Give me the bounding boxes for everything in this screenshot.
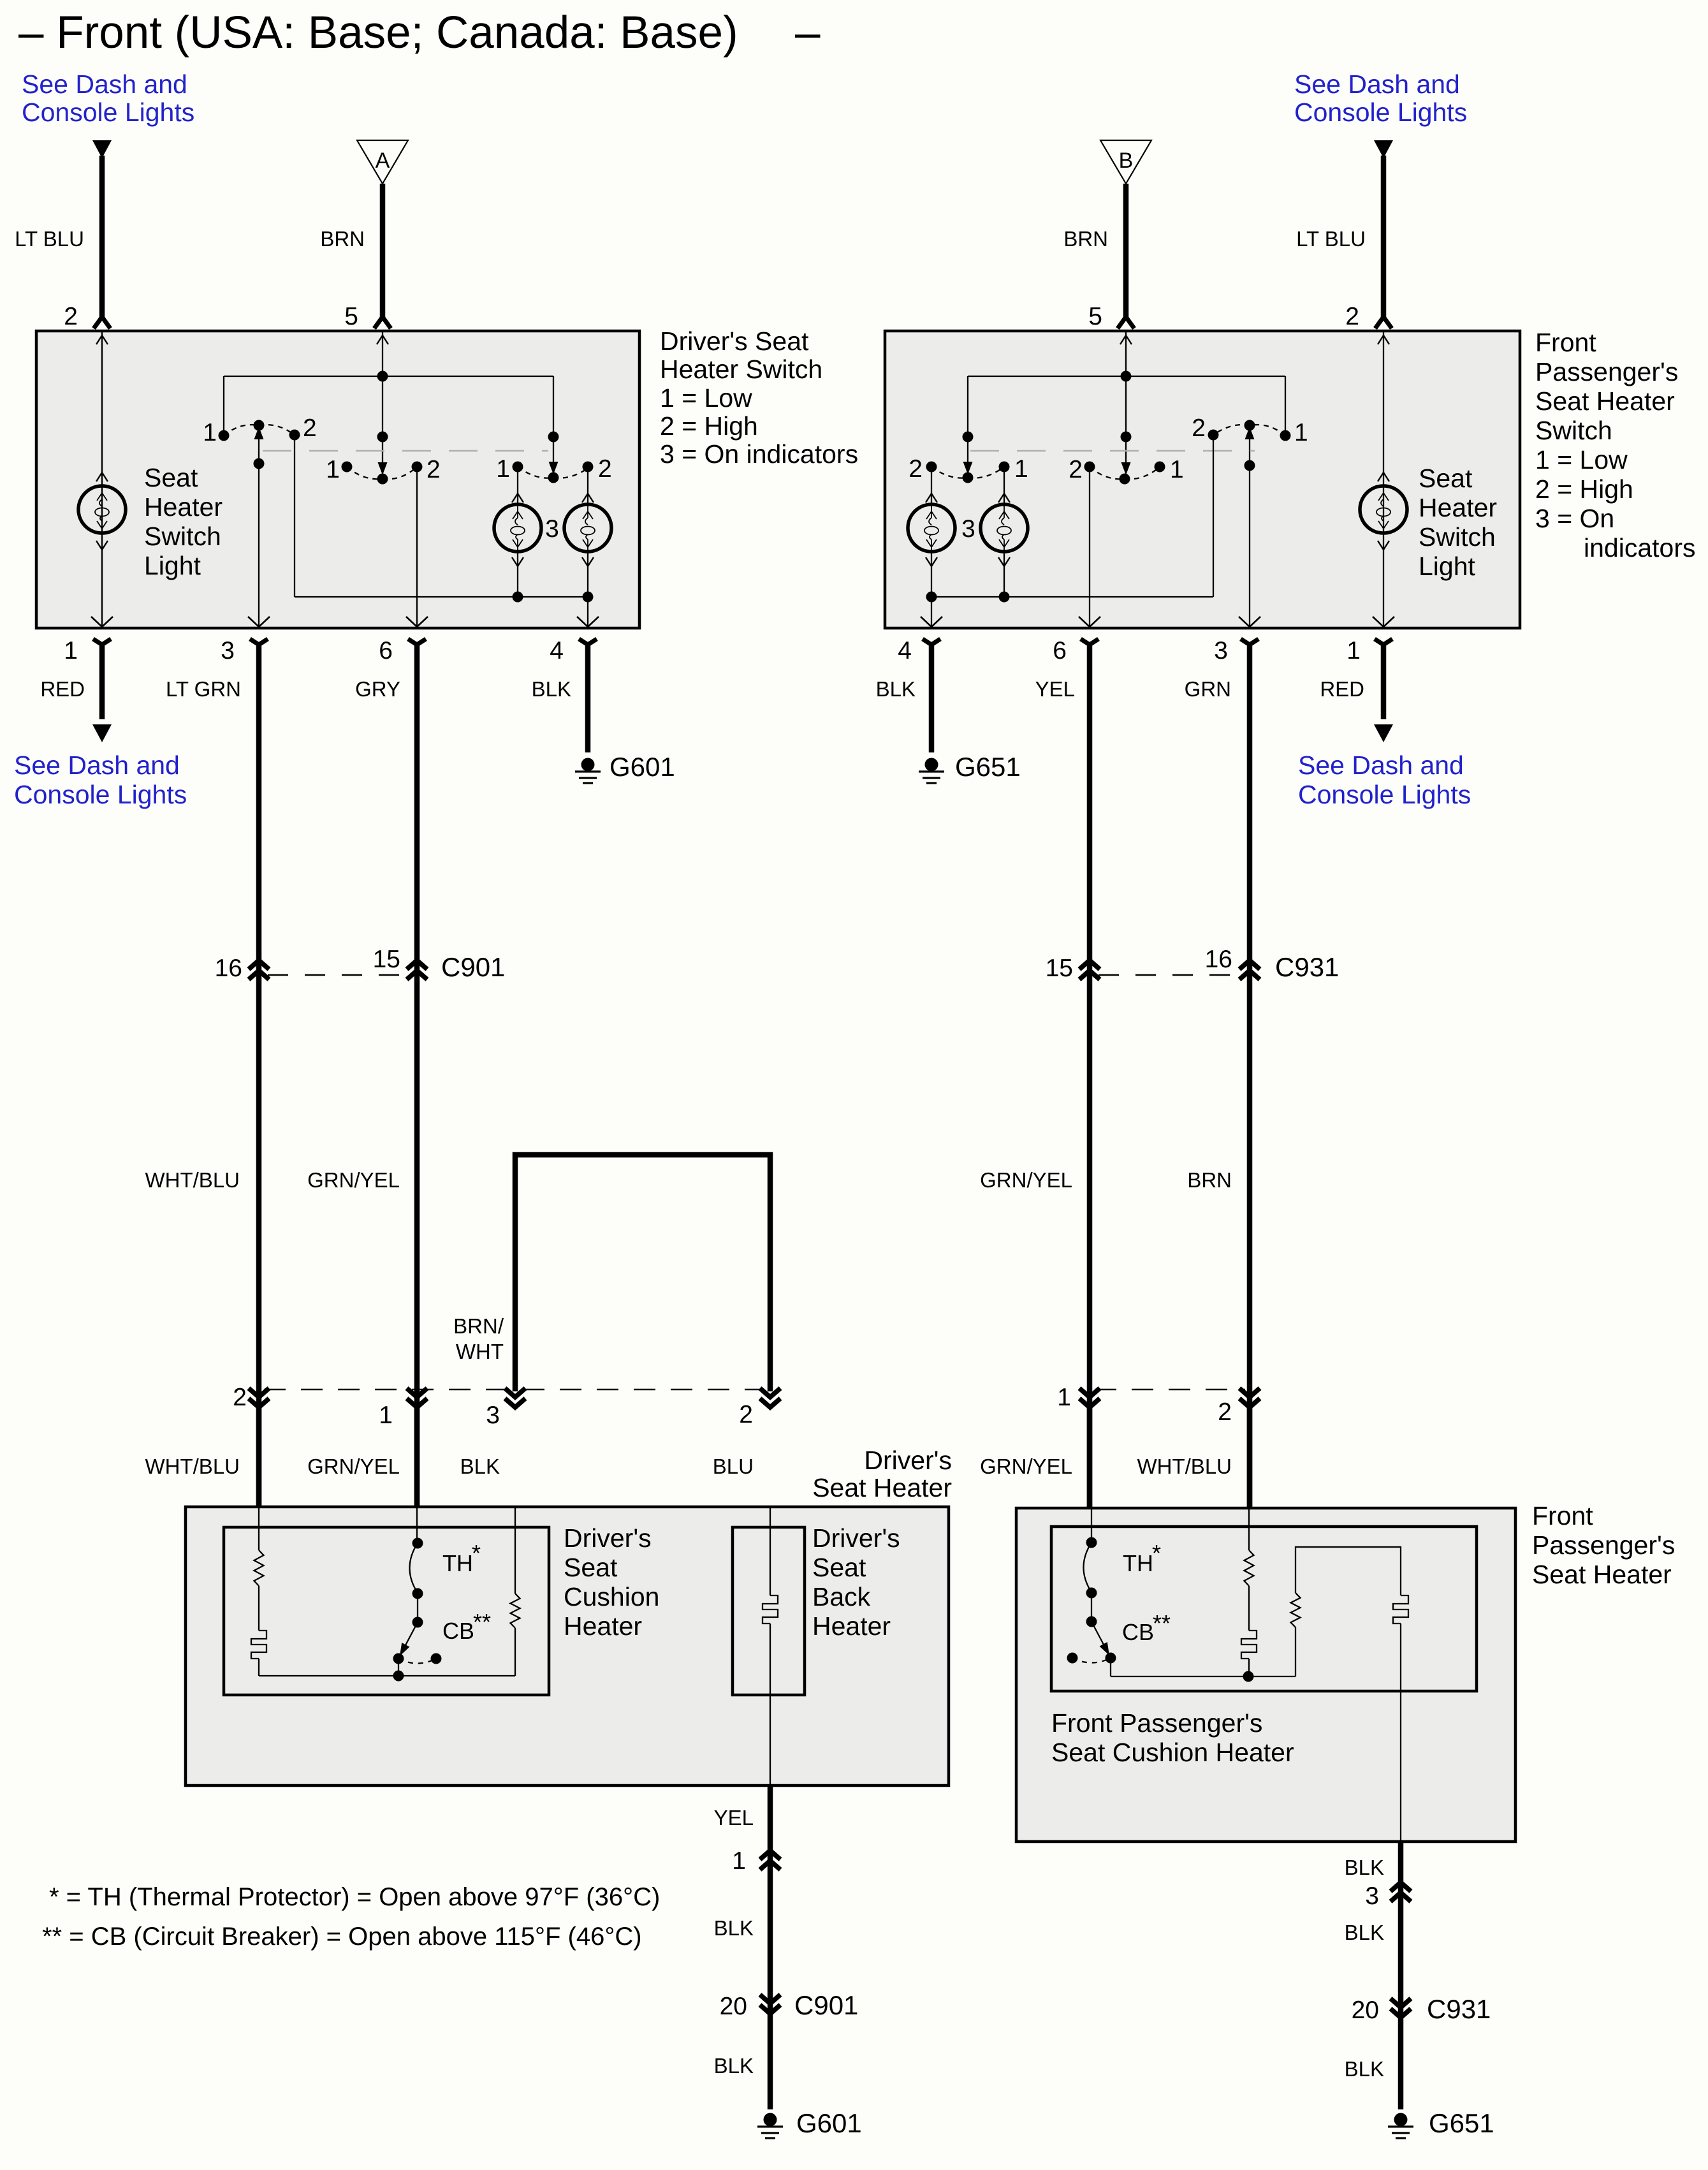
wire pin4 output (driver) <box>587 597 588 627</box>
indicator lamp 2 (passenger) <box>981 504 1028 552</box>
svg-text:3: 3 <box>486 1402 500 1429</box>
svg-text:1: 1 <box>1170 456 1184 483</box>
svg-text:Seat Cushion Heater: Seat Cushion Heater <box>1051 1738 1294 1767</box>
svg-text:2: 2 <box>1069 456 1083 483</box>
svg-text:TH: TH <box>1123 1550 1153 1576</box>
arrowhead down (below passenger switch light) <box>1378 541 1389 550</box>
contact dot wiper (driver low-high) <box>377 474 388 485</box>
svg-text:4: 4 <box>898 637 912 664</box>
svg-text:– Front (USA: Base; Canada: Ba: – Front (USA: Base; Canada: Base) <box>18 8 738 58</box>
svg-text:BLK: BLK <box>714 2054 754 2078</box>
wire stub pin1 to heater (passenger) <box>1087 1407 1093 1508</box>
junction dot bus lamp1 (driver) <box>513 592 523 603</box>
svg-text:–: – <box>795 8 821 58</box>
wire pin3 output (driver) <box>254 438 265 627</box>
svg-text:Heater: Heater <box>144 492 223 522</box>
svg-text:G651: G651 <box>1429 2108 1494 2138</box>
wire into cushion heater branch 3 (driver) <box>515 1507 516 1594</box>
svg-text:Driver's: Driver's <box>812 1523 900 1553</box>
arrowhead up (passenger pin5 wire top) <box>1120 335 1132 344</box>
indicator lamp 1 (driver) <box>494 504 541 552</box>
wire to indicator lamp 2 (passenger) <box>998 467 1010 504</box>
junction dot feed/branch (passenger) <box>1121 371 1132 382</box>
switch contact upper (driver): dashed throws <box>224 425 295 436</box>
svg-text:CB: CB <box>442 1618 474 1644</box>
svg-text:G601: G601 <box>796 2108 862 2138</box>
arrowhead down pin4 (driver box bottom) <box>577 617 599 627</box>
wire pin6 output (driver) <box>416 467 418 627</box>
circuit breaker CB switch (passenger) <box>1067 1622 1116 1676</box>
wire resistor to bus (driver cushion right) <box>515 1628 516 1676</box>
wire GRY / GRN-YEL (driver pin 6 to heater) <box>408 639 426 1507</box>
svg-text:See Dash and: See Dash and <box>1294 70 1460 99</box>
contact dot 1 (driver upper) <box>219 430 230 441</box>
wire BLK (passenger pin 4 to ground) <box>923 639 940 752</box>
arrowhead down below lamp 2 (driver) <box>582 552 594 597</box>
svg-text:G651: G651 <box>955 752 1021 782</box>
svg-text:WHT/BLU: WHT/BLU <box>145 1455 240 1478</box>
note see dash and console lights (passenger RED) <box>1298 751 1471 809</box>
svg-text:*: * <box>472 1540 481 1566</box>
wire LT GRN / WHT-BLU (driver pin 3 to heater) <box>250 639 268 1507</box>
svg-text:Console Lights: Console Lights <box>22 98 194 127</box>
label driver's seat cushion heater <box>564 1523 659 1641</box>
svg-text:LT GRN: LT GRN <box>166 677 241 701</box>
svg-text:Seat: Seat <box>564 1553 618 1582</box>
svg-text:2: 2 <box>739 1401 753 1428</box>
svg-text:B: B <box>1119 149 1134 173</box>
svg-text:Driver's: Driver's <box>864 1446 952 1475</box>
svg-text:G601: G601 <box>609 752 675 782</box>
driver heater connector pin 3 (BLK) <box>505 1388 525 1397</box>
wire into seat back heater (driver) <box>770 1507 771 1595</box>
svg-text:TH: TH <box>442 1550 473 1576</box>
junction dot bus (passenger cushion) <box>1243 1671 1254 1682</box>
svg-text:BRN: BRN <box>1187 1168 1232 1192</box>
svg-text:1: 1 <box>496 455 510 483</box>
wire element to bus (passenger cushion) <box>1248 1659 1250 1676</box>
connector C901 pin 15 <box>407 960 427 969</box>
svg-text:2: 2 <box>1345 303 1359 330</box>
svg-text:BLK: BLK <box>1345 2057 1384 2081</box>
svg-text:See Dash and: See Dash and <box>1298 751 1464 780</box>
svg-text:Console Lights: Console Lights <box>14 780 187 809</box>
wire stub pin2 to heater (driver) <box>256 1407 262 1507</box>
svg-text:BRN: BRN <box>1063 227 1108 251</box>
arrowhead down below lamp 1 (passenger) <box>926 552 937 597</box>
resistor heater element high (driver cushion) <box>511 1594 520 1628</box>
svg-text:1: 1 <box>1294 419 1308 446</box>
contact dot 2 (passenger upper) <box>1208 430 1219 441</box>
svg-text:GRN: GRN <box>1185 677 1231 701</box>
contact dot 1 (passenger indicators) <box>999 462 1010 473</box>
arrowhead down pin4 (passenger box bottom) <box>921 617 942 627</box>
arrowhead up (above passenger switch light) <box>1378 473 1389 481</box>
svg-text:1: 1 <box>1347 637 1361 664</box>
svg-text:WHT: WHT <box>456 1340 504 1363</box>
svg-text:C901: C901 <box>794 1990 858 2020</box>
ground G601 (switch) <box>575 758 601 784</box>
wire to indicator lamp 1 (passenger) <box>926 467 937 504</box>
svg-text:Switch: Switch <box>1419 522 1496 552</box>
passenger heater connector pin 1 (GRN/YEL) <box>1079 1388 1100 1397</box>
svg-text:Passenger's: Passenger's <box>1532 1530 1675 1560</box>
svg-text:Front: Front <box>1535 328 1596 357</box>
contact dot 1 (driver indicators) <box>513 462 523 473</box>
switch contact indicators (passenger): dashed throws <box>931 467 1004 478</box>
switch contact low-high (driver): dashed throws <box>347 467 417 479</box>
connector pin 3 (passenger heater return) <box>1390 1882 1411 1891</box>
svg-text:3: 3 <box>961 515 975 543</box>
arrowhead to low-high wiper (passenger) <box>1121 462 1131 475</box>
heating element symbol (driver seat back) <box>763 1595 778 1624</box>
passenger heater connector pin 2 (WHT/BLU) <box>1239 1388 1260 1397</box>
wire element to box exit (passenger) <box>1400 1624 1401 1842</box>
ground G651 (heater) <box>1388 2113 1413 2139</box>
thermal protector TH (driver) <box>410 1538 423 1628</box>
connector pin 1 (driver heater return) <box>760 1851 780 1859</box>
contact dot 1 low (driver) <box>342 462 353 473</box>
wire high resistor up and over (passenger) <box>1296 1547 1401 1595</box>
svg-text:LT BLU: LT BLU <box>1296 227 1366 251</box>
svg-text:GRN/YEL: GRN/YEL <box>980 1455 1072 1478</box>
svg-text:Console Lights: Console Lights <box>1298 780 1471 809</box>
svg-text:2: 2 <box>427 456 441 483</box>
svg-text:3 = On: 3 = On <box>1535 504 1614 533</box>
front passenger's seat heater box <box>1016 1508 1515 1842</box>
wire LT BLU (driver switch pin 2 feed) <box>94 156 110 328</box>
contact dot wiper top (driver upper) <box>254 420 265 431</box>
label driver's seat heater <box>812 1446 952 1502</box>
heating element symbol (passenger cushion mid) <box>1241 1631 1257 1659</box>
ground G601 (heater) <box>757 2113 783 2139</box>
front passenger's seat heater switch box <box>885 331 1520 628</box>
svg-text:2: 2 <box>233 1384 247 1411</box>
wire feed branch horizontal (driver) <box>224 376 553 377</box>
contact dot wiper (passenger indicators) <box>963 473 974 483</box>
svg-text:1: 1 <box>379 1402 393 1429</box>
heating element symbol (driver cushion left) <box>251 1631 266 1659</box>
connector C901 pin 16 <box>249 960 269 969</box>
driver's seat cushion heater box <box>224 1527 549 1695</box>
arrowhead up (driver pin5 wire top) <box>377 335 388 344</box>
wire RED (driver pin 1) <box>93 639 111 719</box>
svg-text:Back: Back <box>812 1582 871 1611</box>
arrow to dash lights (driver RED) <box>92 724 112 742</box>
svg-text:See Dash and: See Dash and <box>22 70 187 99</box>
wire feed branch horizontal (passenger) <box>968 376 1285 377</box>
svg-text:1: 1 <box>732 1847 746 1875</box>
svg-text:RED: RED <box>40 677 85 701</box>
driver switch description text <box>660 326 858 469</box>
svg-text:Passenger's: Passenger's <box>1535 357 1678 386</box>
wire switch light branch (driver, pin2 to pin1) <box>101 332 103 627</box>
switch contact low-high (passenger): dashed throws <box>1090 467 1160 479</box>
svg-text:indicators: indicators <box>1584 533 1695 562</box>
lamp passenger seat heater switch light <box>1360 486 1407 533</box>
svg-text:15: 15 <box>1046 955 1073 982</box>
contact dot 2 (driver upper) <box>289 430 300 441</box>
svg-text:BLK: BLK <box>460 1455 500 1478</box>
arrow to dash lights (passenger RED) <box>1374 724 1393 742</box>
connector C901 dashed link <box>268 974 408 976</box>
svg-text:2 = High: 2 = High <box>660 411 758 441</box>
heating element symbol (passenger cushion right) <box>1393 1595 1408 1624</box>
contact dot 1 (passenger upper) <box>1280 430 1291 441</box>
label front passenger's seat heater <box>1532 1501 1675 1589</box>
wire cushion heater bus (driver) <box>259 1675 515 1676</box>
resistor heater element low (passenger cushion) <box>1245 1550 1254 1586</box>
svg-text:WHT/BLU: WHT/BLU <box>145 1168 240 1192</box>
driver's seat back heater box <box>733 1527 805 1695</box>
svg-text:Seat Heater: Seat Heater <box>1535 386 1675 416</box>
svg-text:BLK: BLK <box>532 677 571 701</box>
svg-text:** = CB (Circuit Breaker) = Op: ** = CB (Circuit Breaker) = Open above 1… <box>42 1923 642 1951</box>
svg-text:YEL: YEL <box>714 1806 754 1829</box>
svg-text:Seat Heater: Seat Heater <box>1532 1560 1672 1589</box>
wire cushion heater bus (passenger) <box>1111 1676 1296 1677</box>
svg-text:3: 3 <box>1214 637 1228 664</box>
arrowhead up to upper wiper (passenger) <box>1245 427 1255 439</box>
svg-text:2: 2 <box>1192 414 1206 442</box>
arrowhead up (above driver switch light) <box>96 473 108 481</box>
passenger switch description text <box>1535 328 1695 562</box>
svg-text:GRN/YEL: GRN/YEL <box>980 1168 1072 1192</box>
svg-text:**: ** <box>1153 1610 1171 1636</box>
svg-text:Seat: Seat <box>144 463 198 492</box>
wire resistor to element (driver cushion) <box>258 1586 259 1631</box>
wire pin5 feed (driver switch) <box>382 332 383 473</box>
mechanical link dashed (passenger switch) <box>970 450 1255 452</box>
svg-text:5: 5 <box>1088 303 1102 330</box>
svg-text:C901: C901 <box>441 952 505 982</box>
wire into passenger cushion heater branch 1 <box>1091 1508 1092 1543</box>
arrowhead down pin3 (driver box bottom) <box>248 617 270 627</box>
wire BLK (driver pin 4 to ground) <box>579 639 597 752</box>
label seat heater switch light (driver) <box>144 463 223 580</box>
arrowhead down (below driver switch light) <box>96 541 108 550</box>
arrowhead down pin6 (driver box bottom) <box>406 617 428 627</box>
driver heater connector pin 1 (GRN/YEL) <box>407 1388 427 1397</box>
label TH* (driver) <box>442 1540 481 1576</box>
resistor heater element low (driver cushion) <box>254 1550 264 1586</box>
circuit breaker CB switch (driver) <box>393 1622 442 1682</box>
svg-text:2: 2 <box>909 455 923 483</box>
svg-text:Seat: Seat <box>812 1553 866 1582</box>
arrowhead down (driver light wire at box bottom) <box>91 617 113 627</box>
wire branch drop right (passenger upper contact) <box>1285 376 1286 436</box>
svg-text:LT BLU: LT BLU <box>15 227 84 251</box>
svg-text:2: 2 <box>64 303 78 330</box>
svg-text:3: 3 <box>545 515 559 543</box>
svg-text:BLK: BLK <box>1345 1856 1384 1879</box>
wire pin4 output (passenger) <box>931 597 932 627</box>
lamp driver seat heater switch light <box>78 486 126 533</box>
driver heater connector dashed link <box>264 1389 764 1391</box>
svg-text:CB: CB <box>1122 1619 1154 1645</box>
svg-text:20: 20 <box>720 1993 747 2020</box>
svg-text:Switch: Switch <box>1535 416 1612 445</box>
wire lamp return bus (passenger) <box>931 596 1213 597</box>
svg-text:16: 16 <box>1205 946 1232 973</box>
arrowhead down below lamp 1 (driver) <box>512 552 523 597</box>
wire stub pin2 to heater (passenger) <box>1247 1407 1253 1508</box>
junction dot on feed (passenger) <box>1121 432 1132 443</box>
power arrow from dash lights (left LT BLU) <box>92 140 112 158</box>
svg-text:Light: Light <box>1419 552 1476 581</box>
svg-text:6: 6 <box>1053 637 1067 664</box>
svg-text:BLU: BLU <box>713 1455 754 1478</box>
wire seat back element to box exit (driver) <box>770 1624 771 1785</box>
power arrow from dash lights (right LT BLU) <box>1374 140 1393 158</box>
svg-text:Seat: Seat <box>1419 464 1473 493</box>
connector C931 pin 15 <box>1079 960 1100 969</box>
svg-text:2: 2 <box>1218 1398 1232 1426</box>
svg-text:RED: RED <box>1320 677 1364 701</box>
contact dot 1 low (passenger) <box>1155 462 1165 473</box>
wire LT BLU (passenger switch pin 2 feed) <box>1375 156 1392 328</box>
svg-text:6: 6 <box>379 637 393 664</box>
svg-text:C931: C931 <box>1275 952 1339 982</box>
driver heater connector pin 2 (WHT/BLU) <box>249 1388 269 1397</box>
wire GRN / BRN (passenger pin 3 to heater) <box>1241 639 1259 1508</box>
wire pin6 output (passenger) <box>1089 467 1090 627</box>
thermal protector TH (passenger) <box>1084 1537 1097 1627</box>
wire BRN from A (driver switch pin 5 feed) <box>374 184 391 328</box>
svg-text:3: 3 <box>1365 1882 1379 1910</box>
wire YEL/BLK (driver heater to ground) <box>768 1785 773 2109</box>
svg-text:1: 1 <box>1014 455 1028 483</box>
ground G651 (switch) <box>919 758 944 784</box>
wire BRN from B (passenger switch pin 5 feed) <box>1118 184 1134 328</box>
svg-text:GRY: GRY <box>355 677 400 701</box>
driver's seat heater switch box <box>36 331 639 628</box>
svg-text:3 = On indicators: 3 = On indicators <box>660 439 858 469</box>
connector C931 pin 16 <box>1239 960 1260 969</box>
svg-text:1: 1 <box>64 637 78 664</box>
wire to indicator lamp 2 (driver) <box>582 467 594 504</box>
svg-text:YEL: YEL <box>1035 677 1075 701</box>
svg-text:1: 1 <box>1057 1384 1071 1411</box>
indicator lamp 1 (passenger) <box>908 504 955 552</box>
svg-text:1 = Low: 1 = Low <box>1535 445 1628 474</box>
arrowhead up to upper wiper (driver) <box>254 427 264 439</box>
svg-text:1: 1 <box>203 419 217 446</box>
svg-text:15: 15 <box>373 946 400 973</box>
resistor heater element high (passenger cushion) <box>1291 1593 1301 1627</box>
svg-text:1 = Low: 1 = Low <box>660 383 752 413</box>
svg-text:A: A <box>376 149 390 173</box>
wire into cushion heater branch 1 (driver) <box>258 1507 259 1550</box>
svg-text:5: 5 <box>344 303 358 330</box>
svg-text:Light: Light <box>144 551 201 580</box>
svg-text:WHT/BLU: WHT/BLU <box>1137 1455 1232 1478</box>
svg-text:20: 20 <box>1352 1997 1379 2024</box>
svg-text:BLK: BLK <box>714 1916 754 1940</box>
wire RED (passenger pin 1) <box>1375 639 1392 719</box>
front passenger's seat cushion heater box <box>1051 1527 1477 1691</box>
wire switch light branch (passenger) <box>1383 332 1384 627</box>
wire from contact 2 to bus (driver) <box>294 435 295 597</box>
svg-text:3: 3 <box>221 637 235 664</box>
wire lamp return bus (driver) <box>295 596 588 597</box>
svg-text:Console Lights: Console Lights <box>1294 98 1467 127</box>
svg-text:*: * <box>1152 1540 1161 1566</box>
switch contact upper (passenger): dashed throws <box>1213 425 1285 436</box>
note see dash and console lights (top right) <box>1294 70 1467 127</box>
wire BRN-WHT / BLU jumper loop (driver heater) <box>515 1155 770 1391</box>
svg-text:See Dash and: See Dash and <box>14 751 180 780</box>
svg-text:* = TH (Thermal Protector) = O: * = TH (Thermal Protector) = Open above … <box>49 1883 660 1911</box>
svg-text:Seat Heater: Seat Heater <box>812 1473 952 1502</box>
svg-text:BRN/: BRN/ <box>453 1314 504 1338</box>
wire pin5 feed (passenger switch) <box>1125 332 1127 473</box>
mechanical link dashed (driver switch) <box>263 450 548 452</box>
wire pin3 output (passenger) <box>1245 438 1255 627</box>
junction dot bus lamp1 (passenger) <box>926 592 937 603</box>
arrowhead up (driver light wire top) <box>96 335 108 344</box>
svg-text:4: 4 <box>550 637 564 664</box>
connector triangle A <box>357 140 408 184</box>
indicator lamp 2 (driver) <box>564 504 611 552</box>
wire stub pin1 to heater (driver) <box>414 1407 420 1507</box>
note see dash and console lights (driver RED) <box>14 751 187 809</box>
svg-text:2: 2 <box>598 455 612 483</box>
connector triangle B <box>1100 140 1151 184</box>
svg-text:16: 16 <box>215 955 242 982</box>
arrowhead down pin1 (passenger box bottom) <box>1373 617 1394 627</box>
wire into passenger cushion heater branch 2 <box>1248 1508 1250 1550</box>
label seat heater switch light (passenger) <box>1419 464 1497 581</box>
svg-text:BLK: BLK <box>1345 1921 1384 1944</box>
contact dot wiper top (passenger upper) <box>1245 420 1255 431</box>
note see dash and console lights (top left) <box>22 70 194 127</box>
wire resistor to element (passenger cushion) <box>1248 1586 1250 1631</box>
svg-text:1: 1 <box>326 456 340 483</box>
contact dot wiper (passenger low-high) <box>1120 474 1130 485</box>
contact dot 2 (passenger indicators) <box>926 462 937 473</box>
svg-text:Switch: Switch <box>144 522 221 551</box>
svg-text:Heater: Heater <box>812 1611 891 1641</box>
arrowhead down below lamp 2 (passenger) <box>998 552 1010 597</box>
connector C931 dashed link <box>1099 974 1241 976</box>
wire YEL / GRN-YEL (passenger pin 6 to heater) <box>1081 639 1099 1508</box>
svg-text:Heater: Heater <box>564 1611 642 1641</box>
label driver's seat back heater <box>812 1523 900 1641</box>
label TH* (passenger) <box>1123 1540 1161 1576</box>
svg-text:BLK: BLK <box>876 677 916 701</box>
svg-text:**: ** <box>473 1609 491 1635</box>
wire BLK (passenger heater to ground) <box>1398 1842 1404 2109</box>
connector C901 pin 20 <box>760 1995 780 2004</box>
contact dot 2 high (driver) <box>412 462 423 473</box>
wire branch drop left (passenger indicator contact) <box>963 376 974 474</box>
svg-text:Front: Front <box>1532 1501 1593 1530</box>
switch contact indicators (driver): dashed throws <box>518 467 590 478</box>
wire into cushion heater branch 2 (driver) <box>416 1507 418 1543</box>
arrowhead up (passenger light wire top) <box>1378 335 1389 344</box>
contact dot 2 (driver indicators) <box>583 462 594 473</box>
svg-text:Heater: Heater <box>1419 493 1497 522</box>
driver heater connector pin 2b (BLU) <box>760 1388 780 1397</box>
junction dot feed/branch (driver) <box>377 371 388 382</box>
svg-text:C931: C931 <box>1427 1994 1491 2024</box>
wire branch drop right (driver indicator contact) <box>548 376 559 474</box>
wire element to bus (driver cushion) <box>258 1659 259 1676</box>
arrowhead down pin3 (passenger box bottom) <box>1239 617 1260 627</box>
svg-text:2: 2 <box>303 414 317 442</box>
junction dot bus lamp2 (driver) <box>583 592 594 603</box>
